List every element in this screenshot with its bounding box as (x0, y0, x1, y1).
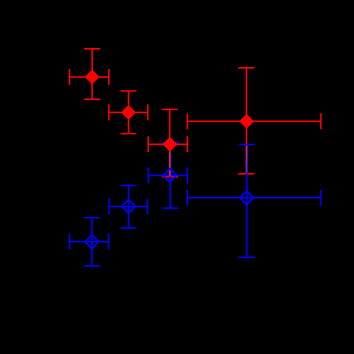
red point P2 filled diamond marker (122, 105, 136, 119)
red point P3 x-error bar (148, 136, 187, 152)
red point P4 y-error bar (238, 68, 254, 174)
overlap blend segment of P3 and Q3 vertical error lines (red half) (168, 152, 170, 177)
blue point Q2 y-error bar (121, 186, 137, 228)
overlap blend segment of P3 and Q3 vertical error lines (violet half) (170, 152, 172, 177)
blue point Q1 open diamond marker (85, 235, 99, 249)
red point P4 x-error bar (187, 113, 321, 129)
red point P1 y-error bar (84, 49, 100, 100)
blue point Q2 x-error bar (109, 199, 147, 215)
red point P1 filled diamond marker (85, 70, 99, 84)
blue point Q1 x-error bar (70, 234, 109, 250)
blue point Q4 open diamond marker (240, 191, 254, 205)
red point P3 filled diamond marker (163, 137, 177, 151)
overlap blend segment of P4 and Q4 vertical error lines (246, 146, 248, 173)
red point P2 x-error bar (109, 104, 148, 120)
red point P4 filled diamond marker (240, 114, 254, 128)
blue point Q3 y-error bar (162, 143, 178, 209)
blue point Q2 open diamond marker (122, 200, 136, 214)
red point P1 x-error bar (70, 69, 109, 85)
blue point Q1 y-error bar (84, 218, 100, 266)
red point P2 y-error bar (121, 91, 137, 134)
blue point Q3 x-error bar (148, 167, 187, 183)
red point P3 y-error bar (162, 109, 178, 176)
blue point Q3 open diamond marker (163, 169, 177, 183)
blue point Q4 y-error bar (239, 145, 255, 258)
blue point Q4 x-error bar (187, 190, 321, 206)
